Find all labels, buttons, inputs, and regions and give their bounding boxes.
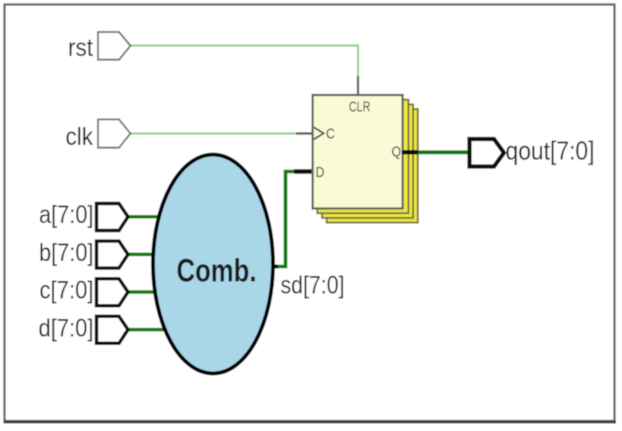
flip-flop stack layer 2 <box>317 100 408 214</box>
flip-flop U1 front body <box>313 95 403 209</box>
svg-text:clk: clk <box>66 123 94 151</box>
svg-text:CLR: CLR <box>349 100 371 116</box>
port b[7:0] <box>97 241 129 268</box>
wire clk to C (gray part) <box>296 132 312 134</box>
wire sd: Comb output to D (green) <box>274 172 296 267</box>
border frame bottom edge <box>4 421 617 424</box>
port rst <box>98 32 131 60</box>
svg-text:D: D <box>316 164 325 180</box>
svg-text:a[7:0]: a[7:0] <box>39 201 94 229</box>
clock triangle on C pin <box>314 127 324 139</box>
svg-text:rst: rst <box>68 34 93 62</box>
svg-text:d[7:0]: d[7:0] <box>39 315 94 343</box>
port qout[7:0] <box>470 139 505 167</box>
wire Q stub (black, crosses stack) <box>402 150 418 154</box>
svg-text:Comb.: Comb. <box>177 253 257 289</box>
port a[7:0] <box>97 204 129 231</box>
wire b to Comb <box>128 253 153 257</box>
Comb. ellipse <box>153 155 273 374</box>
wire d to Comb <box>128 328 165 332</box>
wire sd stub at Comb (black) <box>271 265 278 269</box>
svg-text:Q: Q <box>392 143 402 159</box>
port d[7:0] <box>97 316 129 343</box>
svg-text:sd[7:0]: sd[7:0] <box>281 272 345 300</box>
wire sd stub into D pin (black) <box>294 169 312 174</box>
wire clk (green part) <box>131 133 297 135</box>
flip-flop stack layer 3 <box>322 104 413 217</box>
svg-text:qout[7:0]: qout[7:0] <box>506 136 595 166</box>
svg-text:b[7:0]: b[7:0] <box>39 239 94 267</box>
svg-text:c[7:0]: c[7:0] <box>40 277 94 305</box>
flip-flop stack layer 4 <box>327 109 418 223</box>
svg-text:C: C <box>326 125 335 141</box>
port c[7:0] <box>97 279 129 306</box>
wire rst to CLR (gray part) <box>357 76 359 95</box>
wire c to Comb <box>128 290 155 294</box>
wire rst (green part) <box>131 46 359 77</box>
port clk <box>98 119 131 147</box>
wire Q to qout (dark green) <box>418 150 468 154</box>
wire a to Comb <box>128 215 159 219</box>
